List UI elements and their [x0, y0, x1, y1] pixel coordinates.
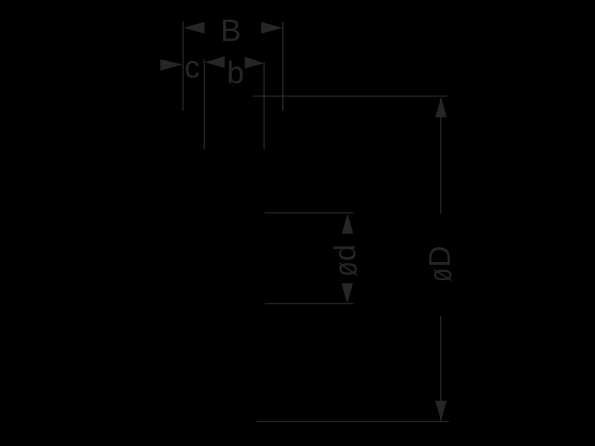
dimension line oD lower segment	[440, 316, 442, 421]
arrow c outside-left	[160, 59, 182, 71]
label od: glyph o-slash	[339, 262, 357, 276]
label od: glyph d	[333, 246, 355, 259]
label oD: glyph o-slash	[434, 269, 452, 282]
label c	[186, 61, 199, 78]
arrow B right	[261, 22, 283, 34]
arrow B left	[184, 22, 205, 34]
extension line right of B at x=282.8	[282, 22, 284, 111]
arrow od down	[341, 283, 353, 303]
arrow od up	[342, 214, 354, 234]
extension line left of B/c at x=183	[182, 22, 184, 111]
arrow oD up	[435, 98, 447, 118]
label oD: glyph D	[429, 247, 450, 265]
object line bottom of bore	[265, 303, 354, 305]
extension line right of b at x=264.1	[263, 62, 265, 149]
object line top of bore	[265, 212, 354, 214]
extension line between c and b at x=204.3	[203, 60, 205, 150]
dimension line oD upper segment	[440, 98, 442, 214]
arrow b/c pointing left	[205, 56, 225, 68]
label b	[229, 61, 243, 84]
arrow oD down	[435, 401, 447, 421]
object line top of outer diameter	[253, 95, 447, 97]
label B	[223, 20, 240, 41]
object line bottom of outer diameter	[257, 421, 449, 423]
arrow b pointing right	[245, 57, 264, 69]
